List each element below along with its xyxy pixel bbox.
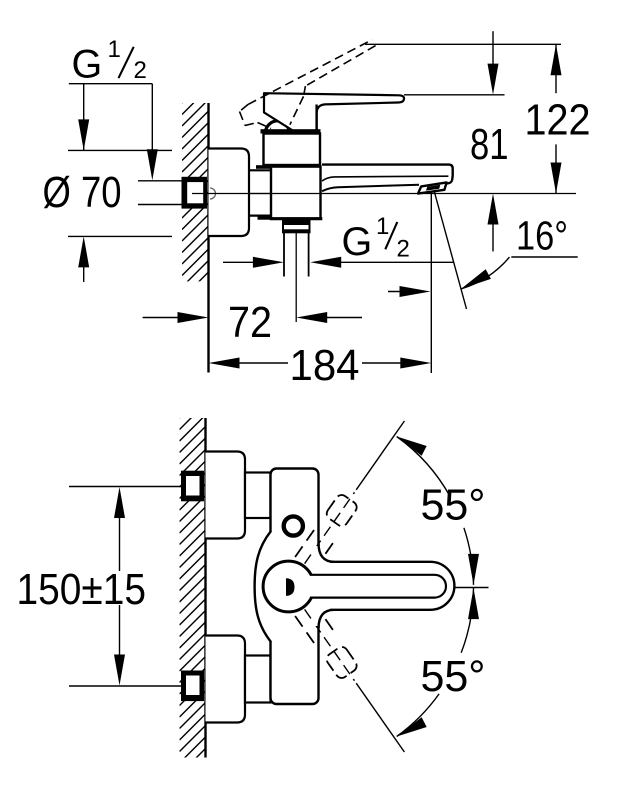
svg-text:184: 184	[290, 341, 360, 390]
svg-text:2: 2	[397, 236, 410, 263]
svg-text:G: G	[72, 43, 103, 87]
svg-text:72: 72	[228, 298, 272, 347]
svg-text:2: 2	[134, 57, 147, 84]
svg-text:122: 122	[525, 96, 591, 145]
svg-text:1: 1	[376, 213, 389, 240]
svg-text:1: 1	[108, 36, 121, 63]
svg-text:16°: 16°	[516, 213, 568, 259]
svg-text:55°: 55°	[421, 652, 486, 701]
svg-text:Ø 70: Ø 70	[43, 168, 122, 217]
svg-text:55°: 55°	[421, 481, 486, 530]
svg-text:150±15: 150±15	[17, 565, 147, 614]
svg-text:G: G	[342, 220, 373, 264]
svg-text:81: 81	[470, 120, 509, 169]
